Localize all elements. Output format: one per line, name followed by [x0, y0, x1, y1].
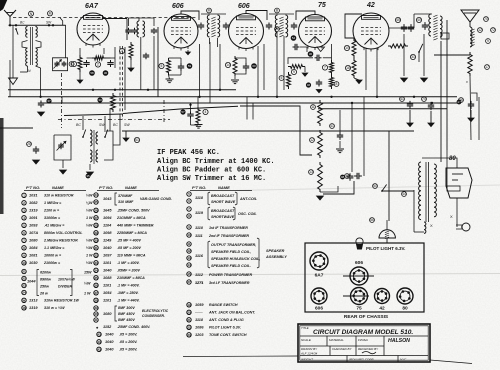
pilot light icon: [356, 238, 363, 245]
output transformer T4 core: [433, 15, 437, 17]
wire V3 pin drop 2: [263, 44, 265, 90]
svg-text:19: 19: [187, 303, 191, 307]
svg-text:1111: 1111: [195, 234, 203, 238]
svg-text:SPEAKER HUM-BUCK COIL,: SPEAKER HUM-BUCK COIL,: [211, 257, 260, 261]
svg-text:3rd LF TRANSFORMER: 3rd LF TRANSFORMER: [209, 281, 250, 285]
node label 9b: [291, 69, 296, 74]
power transformer T6 core: [425, 162, 427, 222]
capacitor C13: [318, 80, 320, 83]
wire antenna top bus: [9, 24, 66, 26]
wire dashed gang drop 1b: [122, 46, 124, 120]
svg-text:310 MMF: 310 MMF: [118, 200, 134, 204]
svg-text:ANT. JACK ON BAL.CONT.: ANT. JACK ON BAL.CONT.: [208, 311, 255, 315]
node dot bus g: [39, 96, 41, 98]
speaker field resistor: [468, 52, 472, 76]
svg-text:NAME: NAME: [218, 185, 230, 190]
wire speaker down: [470, 76, 471, 140]
svg-text:606: 606: [172, 3, 184, 10]
wire left stub y128: [0, 127, 33, 129]
svg-text:W: W: [23, 298, 26, 302]
svg-text:1030: 1030: [29, 261, 38, 265]
svg-text:370MMF: 370MMF: [118, 194, 133, 198]
ground C29: [470, 110, 472, 118]
ground C13: [316, 90, 321, 93]
svg-text:ELECTROLYTIC: ELECTROLYTIC: [142, 309, 169, 313]
svg-text:1149: 1149: [103, 239, 112, 243]
node label 30b: [308, 51, 314, 57]
svg-text:21GMMF = MICA: 21GMMF = MICA: [116, 216, 146, 220]
wire gang drop V3 b: [252, 103, 254, 120]
ground tone caps: [403, 34, 405, 76]
svg-text:.25 MF = 400V: .25 MF = 400V: [117, 239, 142, 243]
svg-text:22: 22: [187, 325, 191, 329]
wire osc section top2: [104, 116, 106, 130]
node label 70: [484, 17, 489, 22]
wire long B horizontal: [122, 130, 414, 132]
svg-text:DIVIDER: DIVIDER: [58, 285, 72, 289]
wire dashed tuning gang link: [58, 119, 170, 121]
node label 60: [251, 63, 257, 69]
svg-text:21: 21: [187, 318, 191, 322]
svg-text:ALF 12/4/34: ALF 12/4/34: [300, 352, 318, 356]
ground R15: [197, 122, 199, 124]
wire V1 grid drop: [126, 19, 128, 41]
svg-text:8MF 450V: 8MF 450V: [118, 318, 135, 322]
svg-text:1 MEGw =: 1 MEGw =: [44, 201, 62, 205]
svg-text:606: 606: [355, 260, 363, 266]
node label 28b: [275, 27, 280, 32]
capacitor C4a padder: [128, 28, 130, 30]
output transformer T4 primary: [429, 14, 431, 36]
wire dash-dot drop 2: [163, 100, 165, 122]
svg-text:5: 5: [281, 76, 283, 80]
wire right edge vertical: [446, 20, 448, 150]
svg-text:1271: 1271: [195, 281, 204, 285]
svg-text:80: 80: [449, 156, 456, 162]
svg-text:SPEAKER FIELD COIL.: SPEAKER FIELD COIL.: [211, 264, 251, 268]
svg-text:PILOT LIGHT 6.3V.: PILOT LIGHT 6.3V.: [209, 326, 241, 330]
svg-text:.25MF COND. 400V.: .25MF COND. 400V.: [117, 325, 150, 329]
wire AVC vertical left of V2: [157, 27, 159, 97]
wire T1 bottom out: [36, 66, 41, 68]
svg-text:1098: 1098: [103, 231, 112, 235]
IF transformer T3 secondary: [286, 15, 288, 37]
pilot lamp socket plug: [462, 223, 470, 231]
ground V2 g: [186, 52, 191, 55]
ground mid-left: [125, 131, 127, 138]
ground C20: [33, 160, 40, 164]
oscillator coil L4 SW: [96, 132, 98, 144]
svg-text:46: 46: [307, 83, 311, 87]
svg-text:½W: ½W: [84, 282, 91, 286]
node dot bus f: [431, 102, 433, 104]
svg-text:.25MF COND. 500V: .25MF COND. 500V: [117, 209, 150, 213]
svg-text:14: 14: [187, 263, 191, 267]
wire V2 rc loop top: [169, 57, 182, 59]
svg-text:7: 7: [324, 66, 326, 70]
svg-text:42: 42: [379, 306, 385, 312]
wire T1 link: [22, 41, 28, 49]
node label 17: [485, 65, 490, 70]
svg-text:12: 12: [187, 249, 191, 253]
page border bottom right line: [430, 360, 472, 364]
svg-text:1203: 1203: [195, 333, 204, 337]
svg-text:P'T NO.: P'T NO.: [26, 185, 40, 190]
svg-text:.05 MF = 200V: .05 MF = 200V: [117, 246, 142, 250]
node label 3: [119, 48, 124, 53]
wire bus horizontal 4 gang: [64, 114, 123, 116]
rectifier V6 80: [446, 168, 472, 198]
svg-text:31: 31: [94, 246, 98, 250]
svg-text:1313: 1313: [29, 299, 38, 303]
wire osc vertical: [130, 60, 132, 68]
svg-text:REAR OF CHASSIS: REAR OF CHASSIS: [344, 314, 389, 320]
svg-text:1031: 1031: [29, 194, 38, 198]
svg-text:37: 37: [47, 99, 51, 103]
node dot antenna 1: [9, 24, 11, 26]
pilot light bulb: [379, 230, 395, 238]
svg-text:1094: 1094: [103, 216, 112, 220]
svg-text:26: 26: [94, 208, 98, 212]
speaker voice coil: [470, 27, 472, 47]
capacitor C18 to ground: [40, 101, 42, 104]
node dot antenna 3: [48, 24, 50, 26]
ground antenna coil: [9, 78, 18, 85]
title block col line HALSON: [383, 336, 385, 356]
svg-text:110 MMF = MICA: 110 MMF = MICA: [117, 254, 146, 258]
wire dashed AVC top: [13, 17, 197, 19]
wire bus AVC horizontal: [8, 96, 457, 98]
svg-text:9: 9: [487, 39, 489, 43]
wire V4 right drops: [331, 44, 333, 60]
svg-text:15W: 15W: [84, 271, 92, 275]
wire divider right: [320, 186, 338, 192]
switch S2 power: [382, 184, 387, 191]
svg-text:——: ——: [194, 311, 203, 315]
svg-text:606: 606: [238, 3, 250, 10]
svg-text:NAME: NAME: [125, 185, 137, 190]
svg-text:107A: 107A: [29, 231, 38, 235]
node label B: [275, 8, 280, 13]
wire T3 top: [269, 13, 294, 15]
wire right area verticals: [446, 150, 448, 190]
tube V4 75: [299, 15, 332, 48]
svg-text:ANT. COND & PLUG: ANT. COND & PLUG: [208, 318, 244, 322]
svg-text:1112: 1112: [195, 273, 204, 277]
variable capacitor C19 padder: [60, 143, 62, 145]
wire bus B+ horizontal: [8, 89, 236, 91]
node dot bus c: [276, 96, 278, 98]
transformer T1 secondary 2: [36, 48, 38, 66]
parts list group 3 power transformer row: [187, 272, 191, 276]
transformer T1 secondary: [36, 27, 38, 38]
svg-text:1 W: 1 W: [86, 254, 93, 258]
svg-text:1110: 1110: [195, 226, 204, 230]
node label 70b: [422, 97, 427, 102]
wire divider out: [323, 181, 354, 194]
svg-text:BC: BC: [76, 123, 81, 127]
parts list group 1 tail rows: [22, 298, 26, 302]
svg-text:210MMF = MICA: 210MMF = MICA: [116, 276, 145, 280]
resistor R5 V3 cathode: [233, 56, 237, 76]
svg-text:8MF 450V: 8MF 450V: [118, 312, 135, 316]
svg-text:27: 27: [187, 280, 191, 284]
resistor R14 divider bottom: [318, 162, 323, 192]
svg-text:.41 MEGw =: .41 MEGw =: [44, 224, 65, 228]
power transformer T6 secondary: [434, 164, 436, 217]
scan mark top-left corner: [0, 0, 7, 11]
switch S1 tone: [419, 44, 423, 52]
svg-text:31: 31: [411, 55, 415, 59]
svg-text:27: 27: [94, 216, 98, 220]
svg-text:.1MF = 280V.: .1MF = 280V.: [117, 291, 139, 295]
wire osc right: [113, 116, 120, 145]
ground C27: [409, 110, 411, 123]
svg-text:½W: ½W: [86, 209, 93, 213]
svg-text:1088: 1088: [103, 276, 112, 280]
wire far right vertical: [440, 41, 442, 162]
wire R2 right: [106, 57, 115, 59]
svg-text:¼W: ¼W: [86, 201, 93, 205]
node label 1: [71, 61, 76, 66]
ground V3: [234, 76, 236, 79]
wire V5 plate right: [389, 27, 414, 29]
svg-text:2.MEGw RESISTOR: 2.MEGw RESISTOR: [43, 239, 78, 243]
node label 54: [291, 35, 297, 41]
svg-text:58: 58: [90, 71, 94, 75]
node dot bus h: [257, 96, 259, 98]
svg-text:BROADCAST: BROADCAST: [211, 209, 235, 213]
node dot bus d: [351, 102, 353, 104]
svg-text:20: 20: [187, 310, 191, 314]
svg-text:1054: 1054: [103, 291, 112, 295]
node label 37: [46, 98, 51, 103]
node label 28: [27, 142, 32, 147]
svg-text:SW: SW: [124, 123, 130, 127]
resistor R7b divider: [330, 75, 334, 89]
svg-text:46: 46: [459, 98, 463, 102]
wire V2 grid cap: [181, 11, 199, 20]
svg-text:M: M: [208, 9, 211, 13]
svg-text:23: 23: [187, 333, 191, 337]
resistor R9 V5 grid leak: [352, 38, 356, 58]
svg-text:43: 43: [97, 332, 101, 336]
svg-text:13: 13: [187, 256, 191, 260]
wire power area vertical: [413, 190, 415, 232]
svg-text:FINISH: FINISH: [358, 338, 369, 342]
svg-text:6A7: 6A7: [315, 273, 324, 279]
wire trim feed: [65, 25, 67, 58]
svg-text:5: 5: [161, 64, 163, 68]
variable capacitor C-trim RF: [53, 58, 68, 71]
wire padder box: [54, 135, 71, 160]
tube V1 6A7: [77, 13, 109, 45]
wire mid verticals 2: [351, 103, 353, 172]
wire V4 cap link: [300, 47, 307, 52]
svg-text:75: 75: [356, 306, 362, 312]
wire osc coil bottom drop: [140, 37, 142, 90]
node dot V4: [330, 96, 332, 98]
wire dashed gang drop 1: [119, 46, 121, 120]
svg-text:1319: 1319: [29, 209, 38, 213]
svg-text:1 W: 1 W: [84, 292, 91, 296]
node dot V2: [219, 89, 221, 91]
svg-text:.1 MF = 400V.: .1 MF = 400V.: [117, 284, 140, 288]
node label 7b: [322, 65, 327, 70]
node label 44: [402, 192, 407, 197]
node label 30: [103, 70, 109, 76]
svg-text:44: 44: [402, 192, 406, 196]
parts list group 1 rows: [22, 193, 26, 197]
oscillator coil L3 core: [93, 130, 95, 164]
ground V1 cathode: [79, 72, 81, 80]
svg-text:30: 30: [104, 71, 108, 75]
svg-text:28: 28: [275, 27, 279, 31]
svg-text:8MF 300V: 8MF 300V: [118, 306, 135, 310]
svg-text:57: 57: [181, 110, 185, 114]
node label 41b: [400, 97, 405, 102]
ground V4 diode: [317, 47, 325, 52]
svg-text:10: 10: [22, 261, 26, 265]
svg-text:56: 56: [370, 218, 374, 222]
wire T1 sec link: [36, 41, 42, 49]
wire V1 grid wires: [87, 57, 111, 59]
wire V3 pin drop 1: [257, 46, 259, 97]
svg-text:2nd IF TRANSFORMER: 2nd IF TRANSFORMER: [208, 234, 249, 238]
tube V2 606: [164, 14, 198, 48]
title block row line 3: [300, 355, 428, 357]
node label 12a: [310, 138, 315, 143]
svg-text:1116: 1116: [195, 254, 204, 258]
resistor R7a divider: [330, 60, 334, 75]
parts list group 3 rows: [187, 192, 191, 196]
svg-text:1118: 1118: [195, 196, 204, 200]
node label 48p: [340, 175, 345, 180]
capacitor C17: [424, 22, 426, 25]
node dot cluster: [189, 104, 191, 106]
ground osc: [128, 68, 134, 71]
capacitor C9 V2 bypass: [180, 63, 182, 66]
capacitor C21 filter: [339, 132, 341, 135]
node label C trim: [69, 62, 74, 67]
svg-text:1645: 1645: [103, 209, 112, 213]
title block outer box: [298, 324, 430, 362]
svg-text:24: 24: [22, 291, 26, 295]
svg-text:310 w = ½W: 310 w = ½W: [44, 306, 65, 310]
switch S3 band: [105, 129, 108, 137]
socket 6A7: [310, 252, 328, 270]
svg-text:.05 = 200V.: .05 = 200V.: [119, 340, 137, 344]
node label 72: [491, 28, 496, 33]
node label 4a: [203, 109, 208, 114]
svg-text:4: 4: [205, 110, 207, 114]
scan mark left edge strip: [0, 118, 4, 214]
wire V5 pin drops: [365, 48, 367, 90]
wire dashed AVC curve: [60, 18, 63, 26]
svg-text:TITLE: TITLE: [301, 326, 309, 330]
node label 10: [344, 45, 349, 50]
wire V1 grid cap right: [102, 18, 127, 20]
wire divider step corner: [240, 106, 312, 155]
svg-text:1080: 1080: [103, 312, 112, 316]
ground osc coil: [89, 164, 91, 170]
resistor R6 diode load: [288, 65, 305, 69]
svg-text:BROADCAST: BROADCAST: [211, 194, 235, 198]
svg-text:.05 = 200V.: .05 = 200V.: [119, 333, 137, 337]
node label 5: [159, 63, 164, 68]
capacitor C4b padder: [134, 28, 136, 30]
svg-text:35: 35: [94, 276, 98, 280]
node dot bus i: [376, 96, 378, 98]
title block col line e: [346, 356, 348, 363]
svg-text:.05MF = 200V: .05MF = 200V: [117, 269, 141, 273]
svg-text:42: 42: [366, 2, 375, 9]
wire osc top link: [129, 17, 155, 19]
capacitor C14 coupling: [293, 46, 296, 48]
svg-text:SHORT WAVE: SHORT WAVE: [211, 200, 236, 204]
svg-text:1081: 1081: [29, 254, 38, 258]
svg-text:P'T NO.: P'T NO.: [99, 185, 113, 190]
svg-text:MATERIAL: MATERIAL: [329, 338, 344, 342]
svg-text:30: 30: [94, 238, 98, 242]
ground V5: [354, 78, 359, 80]
node label 46: [459, 98, 464, 103]
svg-text:54: 54: [292, 36, 296, 40]
node dot bus j: [92, 89, 94, 91]
svg-text:10: 10: [187, 233, 191, 237]
svg-text:39: 39: [94, 306, 98, 310]
wire T2 down2: [209, 38, 211, 44]
wire cluster feeds: [190, 103, 192, 111]
paper crease line right: [236, 185, 500, 191]
svg-text:28: 28: [27, 142, 31, 146]
switch contact ant: [16, 29, 18, 35]
svg-text:1 W: 1 W: [86, 216, 93, 220]
svg-text:TONE CONT. SWITCH: TONE CONT. SWITCH: [209, 333, 247, 337]
node label 2: [95, 62, 100, 67]
svg-text:DRAWN BY: DRAWN BY: [301, 347, 318, 351]
title block col line b: [355, 336, 357, 346]
node label 46b: [306, 82, 311, 87]
node label 18: [345, 65, 350, 70]
resistor R2 V1 grid: [92, 56, 106, 60]
ground C21: [339, 141, 341, 148]
wire right area verticals 2: [478, 97, 480, 140]
svg-text:22: 22: [22, 277, 26, 281]
svg-text:40: 40: [417, 18, 421, 22]
capacitor C14b: [315, 57, 318, 59]
node label 13a: [309, 170, 314, 175]
svg-text:1101: 1101: [103, 299, 111, 303]
svg-text:310w RESISTOR 1W: 310w RESISTOR 1W: [44, 299, 79, 303]
resistor R13 divider mid: [318, 130, 323, 158]
node label 61b: [134, 137, 139, 142]
svg-text:1.1 MEGw =: 1.1 MEGw =: [44, 246, 65, 250]
wire bus horizontal 3 right: [318, 108, 447, 110]
svg-text:SCALE: SCALE: [301, 338, 312, 342]
socket 606 bottom: [311, 288, 327, 304]
capacitor C20: [35, 146, 37, 149]
svg-text:606: 606: [315, 306, 323, 312]
title block row line 1: [300, 335, 428, 337]
node label 31: [410, 54, 415, 59]
svg-text:35: 35: [86, 174, 90, 178]
svg-text:2100 w =: 2100 w =: [43, 209, 60, 213]
svg-text:CONDENSER.: CONDENSER.: [142, 314, 165, 318]
resistor R1 V1 cathode: [78, 55, 82, 72]
wire bus slanted left: [123, 106, 238, 113]
tube V5 42: [353, 13, 389, 49]
